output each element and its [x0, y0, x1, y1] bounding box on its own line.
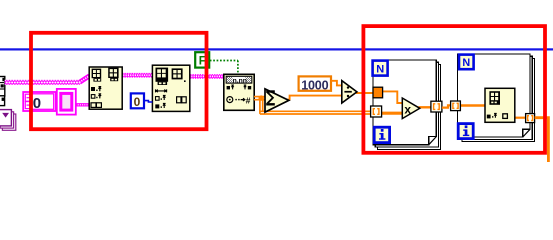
- wire: thin magenta chain wire from cluster shell to icon1 lower input: [76, 103, 90, 106]
- row glyph hollow square: [156, 95, 166, 100]
- two small rectangles: [177, 97, 187, 103]
- svg-text:N: N: [462, 57, 470, 69]
- N terminal loop1: [373, 61, 388, 76]
- tunnel: indexing output tunnel on loop1: [431, 101, 442, 112]
- node: multiply inside loop1: [402, 98, 420, 119]
- boolean False constant (green): [195, 52, 209, 67]
- wire: divide output to loop1 tunnel: [356, 92, 374, 94]
- tunnel: filled orange input tunnel on loop1: [373, 87, 383, 98]
- enum constant with dropdown (cut off, purple): [0, 110, 16, 131]
- wire: 1000 constant to divide input: [331, 81, 343, 86]
- function icon1 (array index/cluster function): [89, 67, 122, 109]
- wire: magenta braided wire from icon2 to string-to-number node: [189, 74, 225, 79]
- page fold corner frame1: [429, 137, 437, 145]
- tunnel: indexing output tunnel on loop2: [526, 114, 535, 123]
- wire: blue scalar wire from 0 constant to icon2: [144, 101, 152, 102]
- i terminal loop2: [458, 124, 473, 139]
- row glyph: filled square dot arrow: [91, 87, 101, 92]
- svg-text:1000: 1000: [301, 79, 328, 93]
- cluster element box (cut off): [0, 96, 5, 106]
- empty cluster shell constant (magenta nested boxes): [57, 89, 76, 115]
- svg-text:x: x: [404, 102, 411, 116]
- loop frame 2 (stacked pages with fold): [458, 54, 535, 142]
- width measure glyph: [156, 89, 167, 92]
- grid glyph top-right: [108, 68, 118, 82]
- cluster constant (cut off at left edge): [0, 77, 5, 97]
- red highlight rectangle 2: [363, 26, 545, 153]
- wire: orange array wire node output to junction and sum: [254, 97, 372, 114]
- big grid glyph: [156, 68, 169, 85]
- array constant "0" (magenta bordered with index display): [23, 92, 56, 112]
- wire: loop2 input tunnel to array node: [458, 104, 486, 107]
- wire: green dotted boolean wire from F constant to node: [210, 61, 238, 75]
- row glyph: hollow square dot arrow: [91, 94, 101, 99]
- wire: magenta braided wire between icon1 and icon2: [121, 73, 153, 78]
- wire: blue structure border line full width: [0, 48, 553, 50]
- loop frame 1 (stacked pages with fold): [373, 60, 441, 149]
- N terminal loop2: [459, 55, 474, 70]
- function icon2 (array size/reshape function): [152, 65, 189, 111]
- wire: indexing tunnel to multiply lower input (thick element wire): [381, 112, 403, 115]
- i terminal loop1: [374, 127, 389, 142]
- svg-text:n.nn: n.nn: [233, 77, 247, 84]
- small grid glyph: [172, 68, 186, 82]
- node: build array inside loop2: [485, 88, 515, 122]
- row glyph: two small rectangles: [91, 103, 101, 108]
- wire: loop2 output to right edge: [535, 118, 549, 163]
- row glyph filled square: [155, 103, 165, 108]
- page fold corner frame2: [523, 129, 530, 137]
- node: fract/exp string to number (n.nn): [224, 74, 254, 110]
- wire: array node output to loop2 output tunnel: [514, 117, 527, 119]
- tunnel: indexing input tunnel on loop2: [451, 101, 461, 111]
- numeric constant 0 (blue bordered): [131, 93, 144, 109]
- junction dot on array wire: [259, 95, 264, 100]
- wire: multiply output to right tunnel: [419, 106, 433, 108]
- node: divide: [342, 81, 357, 103]
- grid glyph top-left: [92, 69, 102, 82]
- wire: loop1 output to loop2 input: [442, 105, 451, 107]
- wire: magenta braided cluster-array wire from left box to icon1: [5, 76, 90, 85]
- svg-text:0: 0: [134, 95, 141, 109]
- node: add array elements (sum): [265, 89, 289, 112]
- svg-text:#: #: [246, 95, 251, 105]
- wire: tunnel1 to multiply top input: [382, 91, 403, 103]
- svg-text:N: N: [376, 63, 384, 75]
- wire: sum output to divide input: [287, 96, 343, 100]
- svg-text:0: 0: [33, 95, 41, 112]
- tunnel: indexing input tunnel on loop1: [371, 106, 382, 117]
- numeric constant 1000 (orange): [299, 76, 331, 92]
- red highlight rectangle 1: [31, 33, 207, 129]
